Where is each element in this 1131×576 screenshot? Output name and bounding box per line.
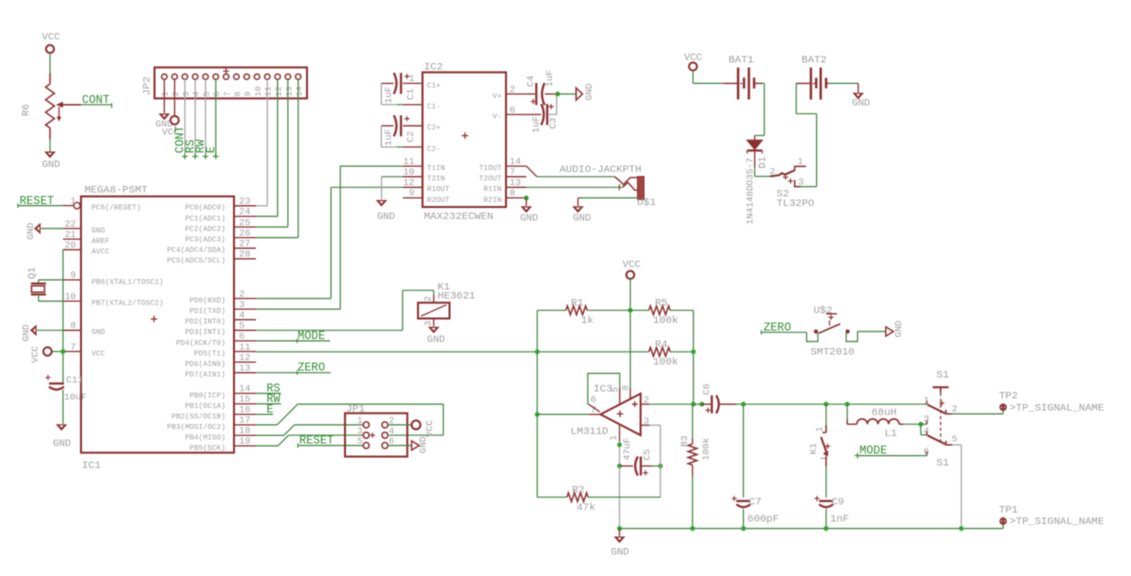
svg-text:1: 1 — [161, 91, 171, 96]
IC1 pin 26 PC3(ADC3) — [185, 227, 256, 244]
svg-text:C2-: C2- — [427, 146, 441, 154]
ground symbol (C11 bottom) — [53, 424, 71, 450]
IC1 pin 24 PC1(ADC1) — [185, 206, 256, 223]
svg-text:PB2(SS/OC1B): PB2(SS/OC1B) — [171, 413, 225, 421]
IC1 pin 13 PD7(AIN1) — [185, 363, 256, 380]
junction main row / R5R4 node — [691, 402, 696, 407]
svg-text:10: 10 — [253, 86, 263, 96]
svg-text:2: 2 — [510, 84, 516, 95]
wire PB4/MISO to JP1 pin1 — [256, 425, 363, 436]
battery BAT2 — [802, 55, 829, 100]
svg-text:100k: 100k — [701, 437, 712, 460]
svg-text:5: 5 — [202, 91, 212, 96]
svg-text:GND: GND — [573, 214, 591, 225]
svg-text:8: 8 — [621, 385, 631, 390]
svg-text:C4: C4 — [525, 75, 536, 87]
junction rail C5 column — [617, 526, 622, 531]
wire JP2 pin2 to VCC — [174, 79, 176, 116]
pushbutton U$2 SMT2010 — [807, 305, 858, 359]
IC2 pin C2- — [403, 146, 441, 154]
IC1 pin 10 PB7(XTAL2/TOSC2) — [63, 291, 164, 308]
svg-text:PD7(AIN1): PD7(AIN1) — [185, 372, 226, 380]
svg-text:GND: GND — [377, 212, 395, 223]
svg-text:D1: D1 — [758, 156, 769, 168]
svg-text:4: 4 — [389, 426, 394, 436]
capacitor C3 1uF (V-) — [526, 94, 558, 133]
svg-text:8: 8 — [70, 320, 76, 331]
svg-text:C3: C3 — [548, 117, 559, 129]
net label MODE (IC1 pin6) — [256, 330, 330, 343]
svg-text:T2OUT: T2OUT — [479, 176, 502, 184]
net label RW (IC1 pin15) — [256, 393, 281, 406]
junction R4 node — [691, 349, 696, 354]
svg-text:2: 2 — [424, 296, 434, 301]
net label RS (IC1 pin14) — [256, 383, 281, 396]
relay contact K1 — [808, 404, 830, 497]
svg-text:BAT2: BAT2 — [802, 55, 827, 67]
svg-text:13: 13 — [239, 363, 251, 374]
ground symbol (IC1 pin8) — [21, 324, 64, 341]
svg-text:1nF: 1nF — [830, 514, 849, 526]
svg-text:MAX232ECWEN: MAX232ECWEN — [424, 211, 493, 223]
capacitor C9 1nF — [814, 496, 849, 529]
svg-text:U$1: U$1 — [637, 197, 656, 209]
resistor R4 100k — [537, 339, 693, 368]
svg-text:MODE: MODE — [298, 330, 326, 343]
wire PD1/TXD to MAX232 T1IN — [256, 166, 403, 309]
svg-text:AVCC: AVCC — [92, 249, 111, 257]
IC1 pin 9 PB6(XTAL1/TOSC1) — [63, 270, 164, 287]
IC2 MAX232ECWEN body — [423, 62, 507, 224]
svg-text:7: 7 — [510, 167, 516, 178]
junction C7 column — [741, 402, 746, 407]
svg-text:AREF: AREF — [92, 238, 110, 246]
wire BAT1 to D1 — [755, 83, 765, 140]
junction R2IN / wire to GND — [524, 196, 529, 206]
svg-text:3: 3 — [181, 91, 191, 96]
junction C5 right — [658, 464, 663, 469]
svg-text:>TP_SIGNAL_NAME: >TP_SIGNAL_NAME — [1010, 402, 1105, 414]
svg-text:GND: GND — [92, 329, 106, 337]
IC2 pin R1OUT — [403, 177, 450, 194]
net label ZERO (U$2) — [761, 321, 806, 334]
ground symbol (R2IN) — [520, 206, 538, 224]
junction V+ node — [555, 92, 560, 97]
resistor R3 100k — [679, 404, 712, 528]
connector JP1 ISP header — [345, 404, 407, 457]
battery BAT1 — [723, 55, 762, 100]
IC1 pin 17 PB3(MOSI/OC2) — [167, 415, 256, 432]
svg-text:20: 20 — [65, 240, 77, 251]
svg-text:10uF: 10uF — [64, 392, 87, 403]
svg-text:PB0(ICP): PB0(ICP) — [189, 392, 225, 400]
wire JP2 pin1 to GND — [163, 79, 165, 113]
IC1 pin 5 PD3(INT1) — [185, 320, 256, 337]
capacitor C1 1uF — [381, 73, 416, 105]
svg-text:12: 12 — [239, 352, 251, 363]
svg-text:R4: R4 — [655, 339, 668, 351]
wire PD5/T1 to comparator node — [256, 351, 537, 353]
svg-text:2: 2 — [171, 91, 181, 96]
svg-text:K1: K1 — [808, 443, 819, 455]
IC1 pin 11 PD5(T1) — [194, 341, 256, 358]
svg-text:47k: 47k — [577, 502, 596, 514]
IC1 pin 8 GND — [63, 320, 106, 337]
wire VCC to R6 — [49, 53, 51, 73]
svg-text:19: 19 — [239, 436, 251, 447]
net label CONT (R6 wiper) — [81, 94, 112, 108]
svg-text:14: 14 — [295, 86, 305, 96]
svg-text:PD1(TXD): PD1(TXD) — [189, 308, 225, 316]
svg-text:4: 4 — [239, 310, 245, 321]
ground symbol (R6 bottom) — [42, 152, 60, 172]
svg-text:21: 21 — [65, 229, 77, 240]
svg-text:PC3(ADC3): PC3(ADC3) — [185, 237, 226, 245]
svg-text:100k: 100k — [653, 315, 678, 327]
svg-text:C2: C2 — [405, 131, 416, 143]
svg-text:1: 1 — [815, 427, 825, 432]
svg-text:TP2: TP2 — [999, 391, 1018, 403]
svg-text:R2IN: R2IN — [483, 197, 501, 205]
svg-text:PC4(ADC4/SDA): PC4(ADC4/SDA) — [167, 247, 226, 255]
svg-text:Q1: Q1 — [28, 267, 39, 279]
svg-text:PB3(MOSI/OC2): PB3(MOSI/OC2) — [167, 424, 226, 432]
wire R1IN to jack ring — [526, 186, 623, 188]
svg-text:VCC: VCC — [92, 350, 106, 358]
svg-text:6: 6 — [212, 91, 222, 96]
svg-text:R1IN: R1IN — [483, 186, 501, 194]
switch S1 DPDT — [923, 369, 957, 469]
svg-text:PC0(ADC0): PC0(ADC0) — [185, 205, 226, 213]
svg-text:3: 3 — [357, 426, 362, 436]
ground symbol (U$2) — [886, 320, 904, 337]
IC2 pin R2IN — [483, 188, 526, 205]
svg-text:1k: 1k — [581, 315, 594, 327]
svg-text:R2OUT: R2OUT — [427, 197, 450, 205]
svg-text:9: 9 — [409, 188, 415, 199]
power symbol VCC (BAT1) — [684, 53, 702, 71]
svg-text:VCC: VCC — [622, 260, 640, 271]
IC2 pin R1IN — [483, 177, 526, 194]
ground symbol (JP1 pin6) — [412, 436, 429, 453]
capacitor C6 — [701, 383, 736, 413]
junction VCC node — [628, 308, 633, 313]
IC1 pin 1 PC6(/RESET) — [63, 195, 141, 212]
svg-text:V-: V- — [492, 113, 501, 121]
svg-text:1: 1 — [409, 73, 415, 84]
svg-text:SMT2010: SMT2010 — [811, 347, 855, 359]
svg-text:C11: C11 — [66, 375, 83, 386]
IC1 pin 19 PB5(SCK) — [189, 436, 256, 453]
svg-text:IC1: IC1 — [82, 460, 101, 472]
crystal Q1 — [28, 267, 64, 301]
switch S2 TL32PO — [770, 156, 815, 210]
IC1 pin 2 PD0(RXD) — [189, 288, 256, 305]
svg-text:17: 17 — [239, 415, 250, 426]
net label E (IC1 pin16) — [256, 404, 274, 417]
junction C9 column — [824, 402, 829, 407]
svg-text:3: 3 — [424, 321, 434, 326]
svg-text:R2: R2 — [572, 484, 585, 496]
svg-text:PC6(/RESET): PC6(/RESET) — [92, 205, 142, 213]
svg-text:PD3(INT1): PD3(INT1) — [185, 329, 226, 337]
svg-text:T2IN: T2IN — [427, 176, 445, 184]
wire comparator left node — [536, 310, 538, 497]
svg-text:PB6(XTAL1/TOSC1): PB6(XTAL1/TOSC1) — [92, 279, 164, 287]
svg-text:1uF: 1uF — [531, 116, 542, 133]
IC1 pin 23 PC0(ADC0) — [185, 196, 256, 213]
svg-text:18: 18 — [239, 425, 251, 436]
junction L1 column — [845, 402, 850, 407]
wire JP2 pin12 to IC1 PC1 — [256, 79, 278, 216]
capacitor C5 47uF — [620, 437, 661, 475]
svg-text:3: 3 — [798, 177, 804, 188]
inductor L1 68uH — [847, 404, 921, 440]
svg-text:PB1(OC1A): PB1(OC1A) — [185, 403, 226, 411]
diode D1 1N4148DO35-7 — [745, 140, 770, 224]
svg-text:1uF: 1uF — [544, 70, 555, 87]
svg-text:PC5(ADC5/SCL): PC5(ADC5/SCL) — [167, 258, 226, 266]
junction output node — [535, 412, 540, 417]
IC1 pin 6 PD4(XCK/T0) — [176, 331, 256, 348]
svg-text:PC1(ADC1): PC1(ADC1) — [185, 215, 226, 223]
wire main row right of C6 — [736, 403, 927, 405]
IC2 pin T1OUT — [479, 156, 526, 173]
resistor R1 1k — [537, 298, 630, 328]
svg-text:HE3621: HE3621 — [438, 290, 476, 302]
svg-text:S1: S1 — [936, 369, 949, 381]
svg-text:T1IN: T1IN — [427, 165, 445, 173]
power symbol VCC (R6 top) — [42, 33, 60, 54]
svg-text:7: 7 — [223, 91, 233, 96]
svg-text:PB5(SCK): PB5(SCK) — [189, 445, 225, 453]
op-amp IC3 LM311D — [571, 383, 650, 441]
wire T1OUT to jack tip — [526, 166, 614, 177]
wire output pin7 to node — [537, 413, 589, 415]
svg-text:1: 1 — [357, 416, 362, 426]
wire VCC to BAT1 — [693, 71, 723, 84]
wire S1 pin5 to TP1 rail — [952, 445, 961, 529]
svg-text:68uH: 68uH — [872, 407, 897, 419]
net label RESET (IC1 pin1) — [18, 195, 63, 208]
svg-text:5: 5 — [952, 434, 958, 445]
svg-text:1: 1 — [798, 156, 804, 167]
svg-text:3: 3 — [239, 299, 245, 310]
wire V+ node to GND — [558, 93, 577, 95]
IC2 pin T2OUT — [479, 167, 526, 184]
IC1 pin 22 GND — [63, 218, 106, 235]
wire VCC to R1/R5 rail and IC3 pin8 — [629, 279, 631, 388]
svg-text:11: 11 — [403, 156, 415, 167]
svg-text:12: 12 — [274, 86, 284, 96]
svg-text:1: 1 — [609, 435, 619, 440]
resistor R5 100k — [630, 298, 693, 327]
svg-text:26: 26 — [239, 227, 251, 238]
svg-text:9: 9 — [70, 270, 76, 281]
svg-text:16: 16 — [239, 404, 251, 415]
svg-text:E: E — [205, 146, 218, 153]
svg-text:2: 2 — [239, 288, 245, 299]
svg-text:L1: L1 — [885, 428, 898, 440]
wire jack sleeve to GND — [578, 198, 638, 206]
net stub RW (JP2 pin5) — [195, 79, 209, 159]
svg-text:RESET: RESET — [20, 195, 55, 208]
svg-text:GND: GND — [42, 160, 60, 171]
svg-text:RESET: RESET — [299, 435, 334, 448]
svg-text:CONT: CONT — [82, 94, 110, 107]
svg-text:GND: GND — [53, 439, 71, 450]
svg-text:11: 11 — [264, 86, 274, 96]
wire PD3/INT1 to relay K1 coil — [256, 290, 434, 330]
IC1 pin 16 PB2(SS/OC1B) — [171, 404, 256, 421]
power symbol VCC (JP1 pin2) — [412, 420, 435, 437]
svg-text:PD0(RXD): PD0(RXD) — [189, 297, 225, 305]
svg-text:2: 2 — [644, 394, 650, 405]
junction pin11 wire node — [535, 349, 540, 354]
svg-text:3: 3 — [923, 414, 929, 425]
connector JP2 header — [142, 67, 308, 98]
svg-text:6: 6 — [510, 104, 516, 115]
wire JP2 pin14 to IC1 PC3 — [256, 79, 298, 237]
svg-text:7: 7 — [70, 341, 76, 352]
svg-text:T1OUT: T1OUT — [479, 165, 502, 173]
svg-text:GND: GND — [418, 436, 429, 453]
svg-text:1: 1 — [70, 195, 76, 206]
svg-text:GND: GND — [92, 227, 106, 235]
IC1 pin 7 VCC — [63, 341, 106, 358]
svg-text:15: 15 — [239, 394, 251, 405]
ground symbol (BAT2) — [852, 93, 870, 110]
svg-text:6: 6 — [239, 331, 245, 342]
ground symbol (T2IN) — [376, 200, 395, 223]
IC2 pin V+ — [492, 84, 526, 101]
svg-text:V+: V+ — [492, 93, 502, 101]
svg-text:GND: GND — [520, 214, 538, 225]
junction C5 left — [617, 464, 622, 469]
IC1 pin 3 PD1(TXD) — [189, 299, 256, 316]
wire R5/R4 right node — [692, 310, 694, 404]
capacitor C4 1uF (V+) — [525, 70, 558, 105]
IC1 pin 20 AVCC — [63, 240, 110, 257]
svg-text:GND: GND — [584, 83, 595, 100]
svg-text:1uF: 1uF — [383, 86, 394, 103]
ground symbol (V+ node) — [576, 83, 594, 100]
wire PB3/MOSI to JP1 pin4 — [256, 404, 443, 435]
svg-text:R6: R6 — [22, 104, 33, 116]
wire AVCC rail — [62, 250, 64, 383]
svg-text:5: 5 — [357, 437, 362, 447]
svg-text:MEGA8-PSMT: MEGA8-PSMT — [85, 185, 148, 197]
svg-text:MODE: MODE — [860, 445, 888, 458]
ground symbol (rail) — [611, 529, 629, 559]
IC1 pin 4 PD2(INT0) — [185, 310, 256, 327]
svg-text:C9: C9 — [832, 496, 845, 508]
IC2 pin C1+ — [403, 73, 441, 90]
junction pin1 — [617, 442, 622, 447]
svg-text:GND: GND — [893, 320, 904, 337]
ground symbol (K1 coil) — [427, 327, 445, 346]
IC2 pin R2OUT — [403, 188, 450, 205]
net stub RS (JP2 pin4) — [184, 79, 198, 159]
test point TP1 — [999, 505, 1104, 529]
svg-text:11: 11 — [239, 341, 251, 352]
wire D1 to S2 pin2 — [755, 151, 770, 177]
svg-text:14: 14 — [239, 383, 251, 394]
IC2 pin T2IN — [403, 167, 445, 184]
wire JP1 pin2 to VCC — [388, 424, 412, 426]
svg-text:13: 13 — [510, 177, 522, 188]
wire PB5/SCK to JP1 pin3 — [256, 435, 363, 446]
wire S1 pin2 to TP2 — [952, 410, 1003, 414]
wire T2IN to GND — [382, 177, 403, 200]
svg-text:6: 6 — [591, 394, 597, 405]
resistor R2 47k — [537, 484, 660, 514]
svg-text:ZERO: ZERO — [298, 362, 326, 375]
wire U$2 to GND — [858, 331, 886, 333]
svg-text:S1: S1 — [936, 458, 949, 470]
svg-text:2: 2 — [952, 404, 958, 415]
svg-text:47uF: 47uF — [622, 437, 633, 460]
wire pin2 to main row — [649, 403, 693, 405]
svg-text:9: 9 — [243, 91, 253, 96]
IC1 pin 21 AREF — [63, 229, 110, 246]
svg-text:GND: GND — [21, 324, 32, 341]
svg-text:PD5(T1): PD5(T1) — [194, 350, 226, 358]
svg-text:PC2(ADC2): PC2(ADC2) — [185, 226, 226, 234]
wire PD0/RXD to MAX232 R1OUT — [256, 187, 403, 298]
IC U1 MEGA8-PSMT body — [81, 185, 234, 473]
svg-text:1N4148DO35-7: 1N4148DO35-7 — [745, 158, 756, 225]
junction main row / R3 — [693, 402, 704, 407]
power symbol VCC (JP2 pin2) — [162, 116, 179, 138]
capacitor C7 600pF — [732, 404, 779, 528]
audio jack U$1 AUDIO-JACKPTH — [560, 164, 656, 209]
svg-text:R1OUT: R1OUT — [427, 186, 450, 194]
ground symbol (JP2 pin1) — [155, 114, 172, 130]
net stub E (JP2 pin6) — [205, 79, 219, 159]
IC1 pin 12 PD6(AIN0) — [185, 352, 256, 369]
wire BAT2 to GND — [828, 83, 858, 92]
IC1 pin 15 PB1(OC1A) — [185, 394, 256, 411]
ground symbol (IC1 pin22) — [25, 222, 63, 239]
svg-text:PB4(MISO): PB4(MISO) — [185, 434, 226, 442]
capacitor C2 1uF — [381, 115, 416, 147]
svg-text:C1+: C1+ — [427, 82, 441, 90]
IC1 pin 28 PC5(ADC5/SCL) — [167, 249, 256, 266]
svg-text:1uF: 1uF — [383, 129, 394, 146]
svg-text:PD4(XCK/T0): PD4(XCK/T0) — [176, 340, 226, 348]
junction rail C9 — [824, 526, 829, 531]
net label ZERO (IC1 pin13) — [256, 362, 331, 375]
svg-text:GND: GND — [611, 548, 629, 559]
wire C5/GND column — [619, 466, 621, 529]
svg-text:VCC: VCC — [30, 346, 41, 363]
svg-text:PD2(INT0): PD2(INT0) — [185, 319, 226, 327]
svg-text:LM311D: LM311D — [571, 426, 609, 438]
wire JP2 pin13 to IC1 PC2 — [256, 79, 288, 227]
IC2 pin V- — [492, 104, 526, 121]
svg-text:AUDIO-JACKPTH: AUDIO-JACKPTH — [560, 164, 642, 176]
net label RESET (JP1 pin5) — [298, 435, 363, 448]
svg-text:28: 28 — [239, 249, 251, 260]
wire ground rail — [620, 524, 1004, 528]
svg-text:VCC: VCC — [42, 33, 60, 44]
svg-text:PD6(AIN0): PD6(AIN0) — [185, 361, 226, 369]
svg-text:JP1: JP1 — [346, 404, 365, 416]
svg-text:600pF: 600pF — [747, 514, 779, 526]
ground symbol (jack sleeve) — [572, 206, 591, 224]
svg-text:GND: GND — [25, 222, 36, 239]
